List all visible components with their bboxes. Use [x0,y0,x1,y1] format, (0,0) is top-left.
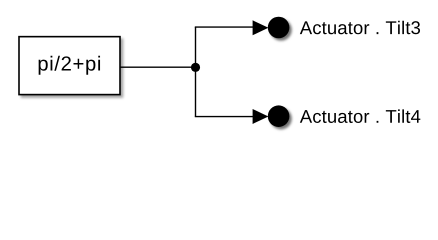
label Actuator . Tilt4 [300,109,420,123]
value label pi/2+pi [39,56,100,75]
port circle Tilt3 [268,17,290,39]
arrowhead to Tilt3 [253,20,269,35]
wire from block to junction [120,66,196,68]
wire vertical branch [195,27,197,117]
wire to Tilt3 [195,26,254,28]
junction node [191,63,200,72]
arrowhead to Tilt4 [253,109,269,124]
label Actuator . Tilt3 [300,21,420,35]
wire to Tilt4 [195,116,254,118]
port circle Tilt4 [268,105,290,127]
constant block pi/2+pi [19,37,120,95]
